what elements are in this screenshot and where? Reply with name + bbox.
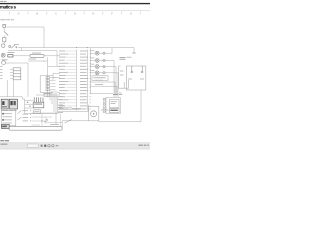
node label-E4 bbox=[90, 63, 94, 66]
wire lamp2-mid bbox=[99, 52, 103, 54]
capacitor C1 bbox=[120, 57, 126, 59]
wire F-stub bbox=[119, 94, 123, 96]
wire feeder-2 bbox=[8, 50, 57, 52]
wire lamp5-in bbox=[90, 72, 95, 74]
lamp E2 bbox=[95, 51, 99, 55]
wire FB1-bottom bbox=[40, 91, 53, 93]
wire lamp4-in bbox=[90, 66, 95, 68]
wire row77 bbox=[53, 77, 60, 79]
wire feeder-2-drop bbox=[56, 51, 58, 67]
switch S6 arrow bbox=[18, 117, 22, 120]
node junction-feeder-a bbox=[76, 47, 77, 48]
wire lamp2-out bbox=[105, 52, 112, 54]
node R10-top-label bbox=[50, 123, 59, 126]
wire battery-down bbox=[3, 28, 5, 32]
node left-margin-text bbox=[0, 66, 2, 79]
wire row73-drop bbox=[52, 74, 54, 80]
module M-box outline bbox=[22, 96, 57, 113]
node right-margin-text bbox=[120, 71, 124, 76]
wire drop-x60 bbox=[60, 114, 62, 127]
wire h1-out bbox=[6, 62, 28, 64]
resistor R1 bbox=[8, 55, 13, 57]
battery G1 bbox=[2, 25, 6, 28]
wire panel-feed-h bbox=[36, 94, 60, 96]
resistor R2 (ballast block) bbox=[30, 54, 44, 57]
wire module-top-feed bbox=[0, 96, 22, 98]
node R10-label bbox=[1, 126, 7, 129]
wire lampbus-4 bbox=[117, 73, 119, 97]
node row86-label bbox=[95, 83, 103, 86]
node terminal-T1 bbox=[132, 52, 135, 54]
node note-top-left bbox=[0, 18, 14, 21]
node harness-stubs bbox=[66, 51, 76, 109]
svg-text:A: A bbox=[18, 12, 20, 16]
wire h1-drop bbox=[27, 63, 29, 80]
node module-right-labels bbox=[58, 96, 63, 113]
lamp E2b bbox=[103, 52, 105, 54]
wire lampbus-2 bbox=[113, 60, 115, 97]
wire bus-x47 bbox=[47, 57, 49, 97]
horn H1 bbox=[2, 61, 6, 65]
wire r1-out bbox=[13, 55, 30, 57]
ammeter M1 bbox=[1, 44, 5, 48]
wire lamp3-mid bbox=[99, 59, 103, 61]
lamp E3b bbox=[103, 59, 105, 61]
wire row61 bbox=[28, 60, 48, 62]
wire m2-bottom-left bbox=[62, 120, 88, 122]
node harness-label-column bbox=[59, 51, 91, 110]
node toolbar-band bbox=[0, 143, 150, 149]
node FB1-contacts bbox=[46, 77, 56, 91]
node label-C1 bbox=[127, 56, 132, 59]
wire motor-feed-1b bbox=[58, 108, 80, 110]
wire branch-x21 bbox=[21, 48, 23, 51]
node label-E3 bbox=[90, 57, 94, 60]
wire row86 bbox=[90, 85, 117, 87]
node label-E5 bbox=[90, 69, 94, 72]
IC U1 (pinned block) bbox=[33, 97, 44, 107]
junction box J2 bbox=[119, 66, 129, 88]
wire lamp5-out bbox=[105, 72, 118, 74]
wire lamp5-mid bbox=[99, 72, 103, 74]
node FB1-label bbox=[44, 92, 52, 95]
node terminal-cluster-x115 bbox=[113, 93, 118, 96]
wire r2-out bbox=[44, 55, 60, 57]
node toolbar-page-field bbox=[27, 144, 38, 147]
node label-R2 bbox=[32, 52, 41, 55]
wire fuse-out bbox=[3, 42, 5, 44]
fuse panel FB1 bbox=[40, 76, 53, 93]
lamp E1 bbox=[1, 53, 5, 57]
node legend-out-wires bbox=[32, 113, 58, 126]
ECU module U2 bbox=[106, 98, 121, 114]
node U2-left-pins bbox=[103, 98, 106, 112]
node U2-inner-text bbox=[110, 101, 118, 111]
wire row82-drop bbox=[114, 82, 116, 94]
node ruler-grid-letters bbox=[18, 12, 133, 16]
wire feeder-top-drop bbox=[133, 48, 135, 53]
resistive element R10 (long bar) bbox=[9, 127, 62, 131]
node ruler-ticks bbox=[9, 12, 140, 15]
node junction-row61 bbox=[43, 60, 44, 61]
relay K9 (right box) bbox=[126, 66, 146, 90]
wire lamp4-out bbox=[105, 66, 116, 68]
wire row66 bbox=[48, 66, 60, 68]
control unit A1 (dark connector left) bbox=[1, 99, 8, 109]
lamp E5 bbox=[95, 71, 99, 75]
wire return-bottom bbox=[99, 121, 142, 123]
svg-text:E: E bbox=[92, 12, 94, 16]
node M2-top-label bbox=[101, 109, 109, 112]
wire motor-feed-1 bbox=[58, 106, 72, 108]
wire drop-x7 bbox=[6, 80, 8, 97]
switch S5 arrow bbox=[18, 111, 22, 114]
wire fuse-drop bbox=[3, 35, 5, 37]
node diag-arrow bbox=[65, 120, 72, 123]
fuse F1 bbox=[3, 38, 6, 42]
node U1-left-wires bbox=[25, 100, 34, 108]
wire lamp3-out bbox=[105, 59, 114, 61]
node row82-label bbox=[95, 79, 103, 82]
wire lamp-left-bus bbox=[90, 48, 92, 94]
wire m2-left-drop bbox=[61, 121, 63, 127]
wire lampbus-3 bbox=[115, 67, 117, 97]
relay K2 (small box) bbox=[34, 110, 41, 113]
node K9-inner-marks bbox=[128, 78, 144, 81]
lamp E4b bbox=[103, 65, 105, 67]
node TB1-rows bbox=[2, 110, 12, 123]
wire motor-feed-2 bbox=[58, 110, 89, 112]
sender unit B1 bbox=[92, 76, 108, 81]
node toolbar-icons bbox=[41, 145, 59, 147]
node label-E2 bbox=[90, 49, 94, 52]
node motor-area-text bbox=[59, 105, 81, 109]
node toolbar-left-text bbox=[0, 144, 7, 145]
wire motor-feed-2-drop bbox=[88, 105, 90, 112]
node junction-feeder-b bbox=[87, 47, 88, 48]
wire bus-x87 bbox=[86, 50, 88, 111]
node ignition-label bbox=[14, 43, 19, 46]
wire row86-drop bbox=[116, 86, 118, 94]
svg-text:F: F bbox=[111, 12, 113, 16]
pump motor M2 bbox=[89, 106, 99, 120]
wire return-drop-x141 bbox=[140, 90, 142, 122]
node K9-terminal-a bbox=[131, 66, 133, 73]
node legend-right-rows bbox=[23, 110, 32, 121]
svg-text:matics s: matics s bbox=[0, 5, 17, 10]
wire bus-drop-x44 bbox=[43, 27, 45, 48]
connector X1 bbox=[13, 68, 21, 80]
wire lamp2-in bbox=[90, 52, 95, 54]
node label-H1 bbox=[2, 58, 8, 61]
wire lampbus-1 bbox=[111, 48, 113, 53]
node A1-A2-caption bbox=[2, 109, 17, 112]
switch S1 (disconnect) bbox=[4, 32, 8, 36]
node header-small-text bbox=[0, 1, 6, 2]
node X1-stubs bbox=[10, 69, 13, 78]
wire drop-x28b bbox=[27, 80, 29, 97]
terminal table TB1 bbox=[1, 109, 16, 126]
node toolbar-right-icon bbox=[139, 145, 150, 146]
wire bottom-link bbox=[47, 122, 62, 124]
svg-text:B: B bbox=[36, 12, 38, 16]
lamp E5b bbox=[103, 72, 105, 74]
node K9-terminal-b bbox=[141, 66, 143, 73]
node fig-caption bbox=[0, 140, 9, 141]
node row61-label bbox=[29, 58, 37, 61]
connector X9 (dark, bottom-left) bbox=[2, 124, 10, 128]
wire battery-to-bus bbox=[6, 26, 44, 28]
wire sheet-top-border bbox=[0, 10, 150, 12]
control unit A2 (dark connector right) bbox=[9, 99, 17, 109]
wire drop-x13 bbox=[13, 80, 15, 97]
wire lamp3-in bbox=[90, 59, 95, 61]
wire header-rule bbox=[0, 3, 150, 4]
node junction-cluster bbox=[41, 119, 47, 122]
wire row93 bbox=[90, 93, 113, 95]
wire lamp4-mid bbox=[99, 66, 103, 68]
wire bus-x76 bbox=[76, 50, 78, 111]
node key-switch cluster bbox=[9, 45, 17, 49]
wire row73 bbox=[53, 73, 60, 75]
node B1-label bbox=[94, 76, 106, 79]
node K2-label bbox=[34, 110, 39, 113]
lamp E4 bbox=[95, 65, 99, 69]
wire row82 bbox=[90, 81, 115, 83]
lamp E3 bbox=[95, 59, 99, 63]
wire panel-feed-drop1 bbox=[57, 92, 60, 94]
wire feeder-top bbox=[18, 47, 134, 49]
node label-E1 bbox=[8, 51, 15, 54]
node terminal-F bbox=[119, 92, 122, 95]
diode V1 bbox=[44, 94, 50, 97]
node module-drop-wires bbox=[50, 91, 56, 125]
